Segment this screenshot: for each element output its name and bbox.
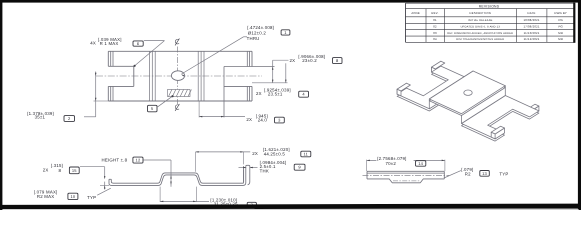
border frame: [0, 0, 581, 3]
svg-text:UPDATED DIMS 6, 8 AND 13: UPDATED DIMS 6, 8 AND 13: [461, 26, 501, 29]
side view thickness line: [367, 172, 444, 174]
svg-text:[.315]: [.315]: [51, 163, 63, 168]
dimension 7 extension lines: [159, 187, 161, 202]
balloon 9: [294, 164, 305, 170]
balloon 11: [301, 151, 311, 157]
bottom black bar: [0, 204, 581, 210]
svg-text:DWG BY: DWG BY: [554, 11, 567, 15]
top view left notch: [108, 65, 134, 67]
isometric view front-left prong lip: [397, 83, 406, 94]
top view right notch: [224, 66, 275, 68]
dimension 14 extension lines: [366, 160, 368, 171]
svg-text:2X: 2X: [43, 167, 49, 172]
svg-text:R2: R2: [465, 171, 471, 176]
side view bottom profile: [367, 179, 444, 183]
top view horizontal centerline: [96, 75, 262, 77]
isometric view plateau left wall: [429, 71, 473, 109]
svg-text:TYP: TYP: [87, 195, 96, 200]
hole ellipse: [171, 71, 184, 81]
isometric view back-left prong lip: [432, 61, 441, 72]
isometric view plateau top: [429, 71, 505, 114]
svg-text:15: 15: [72, 168, 77, 173]
svg-text:ZONE: ZONE: [411, 11, 420, 15]
svg-text:14: 14: [418, 161, 423, 166]
svg-text:R 1 MAX: R 1 MAX: [100, 41, 119, 46]
balloon 14: [416, 161, 426, 167]
dimension 5 leader: [157, 96, 173, 107]
balloon 3: [275, 117, 285, 123]
svg-text:24.0: 24.0: [258, 118, 268, 123]
svg-text:REVISIONS: REVISIONS: [479, 4, 500, 8]
side view bar outline: [367, 170, 444, 172]
svg-text:11/12/2021: 11/12/2021: [524, 37, 540, 41]
balloon 2: [64, 116, 75, 122]
svg-text:4X: 4X: [90, 41, 96, 46]
svg-text:03: 03: [433, 31, 437, 35]
svg-text:REV.: REV.: [431, 11, 438, 15]
svg-text:INITIAL RELEASE: INITIAL RELEASE: [468, 19, 493, 22]
svg-text:10: 10: [70, 194, 75, 199]
svg-text:THRU: THRU: [247, 36, 260, 41]
hatch marking area: [168, 90, 191, 97]
balloon 4: [299, 91, 309, 97]
isometric view back-left prong lip top: [432, 61, 445, 69]
isometric view right base plate: [462, 96, 539, 139]
top view vertical centerline: [177, 47, 179, 105]
svg-text:02: 02: [433, 25, 437, 29]
balloon 8: [333, 58, 343, 64]
svg-text:35±1: 35±1: [35, 115, 46, 120]
TYP leader: [97, 188, 111, 195]
svg-text:REF DIMENSION ADDED, ANNOTATIO: REF DIMENSION ADDED, ANNOTATION ADDED: [447, 32, 513, 35]
svg-text:44.25±0.5: 44.25±0.5: [264, 151, 286, 156]
isometric view right base plate thickness: [462, 98, 539, 141]
balloon 10: [68, 193, 78, 199]
balloon 15: [69, 167, 79, 174]
svg-text:MR: MR: [558, 37, 563, 41]
svg-text:DATE: DATE: [528, 11, 536, 15]
top view outline: [108, 50, 252, 52]
front view outer profile: [109, 166, 246, 185]
isometric view front-right prong lip: [495, 128, 504, 139]
isometric view front-left prong lip side: [397, 89, 401, 96]
isometric view back-right prong lip: [530, 106, 539, 117]
svg-text:Ø12±0.2: Ø12±0.2: [248, 30, 267, 35]
dimension 11 line: [196, 151, 251, 153]
svg-text:2X: 2X: [256, 91, 262, 96]
balloon 6: [133, 41, 143, 46]
svg-text:MR: MR: [558, 31, 563, 35]
dimension 13 leader: [444, 171, 461, 178]
balloon 13: [480, 171, 490, 177]
dimension 15 leader: [80, 166, 105, 168]
svg-text:DIM TOLERANCES/NOTES ADDED: DIM TOLERANCES/NOTES ADDED: [456, 38, 504, 41]
isometric view front-left prong lip top: [397, 83, 410, 91]
front view inner profile: [111, 166, 243, 183]
balloon 12: [133, 157, 143, 163]
svg-text:13: 13: [482, 171, 487, 176]
dimension 3 extension lines: [198, 101, 200, 117]
dimension 4 extension stub: [252, 82, 288, 84]
dimension 6 leader: [144, 40, 165, 42]
svg-text:THK: THK: [260, 169, 269, 174]
balloon 1: [281, 30, 290, 35]
svg-text:PG: PG: [558, 25, 562, 29]
centerline symbol top: [175, 38, 179, 45]
isometric view plateau top thickness: [429, 73, 505, 116]
side view centerline: [363, 174, 449, 176]
svg-text:10/08/2021: 10/08/2021: [523, 18, 539, 22]
balloon 5: [148, 105, 158, 112]
isometric view back-right prong lip side: [526, 110, 530, 117]
svg-text:TYP: TYP: [499, 171, 508, 176]
balloon 7: [247, 202, 256, 208]
side view inner dash line: [393, 180, 420, 182]
centerline symbol bottom: [175, 104, 179, 111]
svg-text:R2 MAX: R2 MAX: [37, 194, 55, 199]
dimension 8 line: [285, 63, 287, 83]
dimension 11 extension lines: [195, 152, 197, 172]
front view right flange outer: [243, 170, 245, 183]
dimension 3 line: [199, 116, 245, 118]
dimension 12 leader and arrows: [144, 159, 172, 161]
svg-text:12: 12: [136, 158, 141, 163]
svg-text:PG: PG: [558, 18, 562, 22]
svg-text:23.5±1: 23.5±1: [268, 91, 283, 96]
isometric view left base plate: [397, 66, 473, 109]
dimension 2 extension line: [94, 100, 109, 102]
svg-text:8: 8: [59, 168, 62, 173]
dimension 2 line: [95, 72, 97, 117]
isometric view plateau right wall: [462, 86, 506, 124]
dimension 7 line: [160, 200, 209, 202]
svg-text:11/10/2021: 11/10/2021: [524, 31, 540, 35]
dimension 14 line: [367, 159, 445, 161]
svg-text:HEIGHT ±.8: HEIGHT ±.8: [102, 158, 128, 163]
isometric view hole: [464, 90, 472, 95]
isometric view left base plate thickness: [397, 68, 473, 111]
svg-text:2X: 2X: [290, 58, 296, 63]
svg-text:17/08/2021: 17/08/2021: [523, 25, 539, 29]
dimension 8 connector: [273, 59, 289, 61]
revision table grid: [406, 2, 575, 4]
svg-text:DESCRIPTION: DESCRIPTION: [470, 11, 492, 15]
svg-text:01: 01: [433, 18, 437, 22]
isometric view front-right prong lip side: [491, 132, 495, 139]
svg-text:23±0.2: 23±0.2: [302, 58, 317, 63]
isometric view front-right prong lip top: [491, 126, 504, 134]
dimension 4 line: [272, 60, 274, 83]
front view right flange wall: [246, 165, 250, 185]
front view left lip cap: [109, 178, 111, 180]
svg-text:04: 04: [433, 37, 437, 41]
svg-text:11: 11: [304, 151, 309, 156]
svg-text:2X: 2X: [252, 151, 258, 156]
dimension 9 arrows THK: [239, 167, 246, 169]
top view bend lines left: [148, 51, 150, 101]
svg-text:[.4724±.008]: [.4724±.008]: [247, 25, 274, 30]
isometric view back-right prong lip top: [526, 104, 539, 112]
isometric view back-left prong lip side: [432, 67, 436, 74]
svg-text:2X: 2X: [246, 117, 252, 122]
svg-text:70±2: 70±2: [386, 161, 397, 166]
top view bend lines right: [197, 51, 199, 101]
dimension 1 hole callout leader: [182, 37, 244, 74]
